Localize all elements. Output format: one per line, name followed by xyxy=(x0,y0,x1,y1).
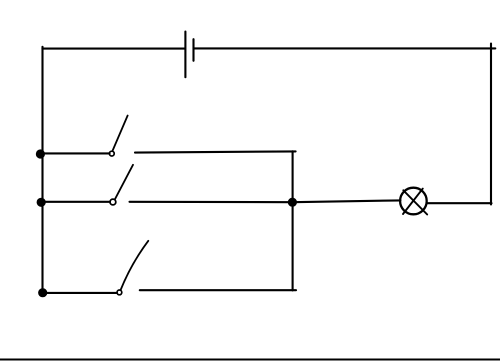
wire right rail vertical xyxy=(490,44,492,205)
node E junction dot xyxy=(288,198,297,207)
wire middle vertical (node D to node F) xyxy=(292,151,294,290)
wire top-right (battery to right rail) xyxy=(194,47,496,49)
wire switch S3 input xyxy=(42,292,117,294)
wire top-left (battery to left rail) xyxy=(43,48,186,50)
wire switch S2 input xyxy=(42,201,110,203)
switch S1 hinge xyxy=(109,151,114,156)
wire lamp to right rail xyxy=(427,202,492,204)
battery B1 long plate (+) xyxy=(184,32,186,78)
wire switch S2 output through node E to lamp xyxy=(130,200,401,202)
lamp L1 cross stroke 2 xyxy=(403,189,423,214)
wire switch S1 output to node D xyxy=(135,151,296,152)
wire switch S3 output to node F xyxy=(140,289,296,291)
bottom border line xyxy=(0,359,500,361)
wire switch S1 input xyxy=(42,152,110,154)
lamp L1 body xyxy=(400,188,427,215)
switch S3 hinge xyxy=(117,290,122,295)
switch S2 lever xyxy=(115,165,133,199)
node A junction dot xyxy=(36,149,45,158)
node C junction dot xyxy=(38,288,47,297)
switch S1 lever xyxy=(113,116,128,151)
wire left rail vertical xyxy=(41,47,43,293)
node B junction dot xyxy=(37,198,46,207)
battery B1 short plate (-) xyxy=(192,39,194,61)
lamp L1 cross stroke 1 xyxy=(403,190,427,214)
switch S2 hinge xyxy=(110,199,116,205)
switch S3 lever xyxy=(121,241,149,290)
